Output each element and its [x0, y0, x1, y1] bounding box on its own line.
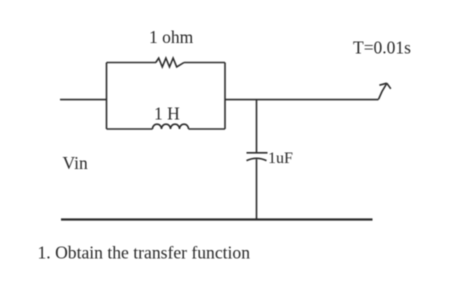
inductor L (1 H): [153, 124, 189, 129]
wire input left: [60, 99, 107, 101]
wire bottom lead left: [107, 128, 153, 130]
svg-text:1uF: 1uF: [268, 150, 293, 167]
ground bottom rail: [61, 218, 373, 220]
svg-text:1 ohm: 1 ohm: [149, 27, 194, 47]
wire box right vertical: [224, 63, 226, 130]
resistor R (1 ohm): [156, 58, 184, 67]
wire top lead left: [107, 62, 157, 64]
svg-text:1. Obtain the transfer functio: 1. Obtain the transfer function: [38, 243, 251, 263]
svg-text:T=0.01s: T=0.01s: [353, 38, 411, 58]
svg-text:1 H: 1 H: [154, 104, 180, 124]
wire box left vertical: [106, 63, 108, 130]
svg-text:Vin: Vin: [63, 153, 88, 173]
node junction wire to capacitor: [256, 100, 258, 153]
wire bottom lead right: [189, 128, 226, 130]
wire capacitor to ground: [256, 159, 258, 219]
capacitor C (1uF): [247, 153, 268, 161]
switch T=0.01s: [379, 83, 391, 99]
wire output right: [225, 99, 379, 101]
wire top lead right: [184, 62, 225, 64]
